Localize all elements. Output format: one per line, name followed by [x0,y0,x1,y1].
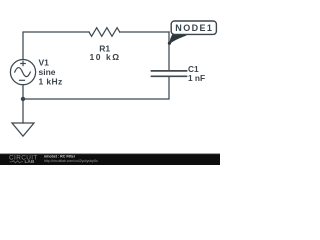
svg-text:mhobst : RC Filter: mhobst : RC Filter [44,155,76,159]
wire: source top to resistor left [23,32,89,60]
node label NODE1 tail [169,34,186,44]
svg-text:1 kHz: 1 kHz [39,77,63,87]
wire: source bottom through junction to ground [22,85,24,123]
resistor R1 [89,28,120,37]
ground symbol [12,123,34,136]
junction node dot [21,97,25,101]
wire: resistor right to corner node [120,31,169,33]
svg-text:sine: sine [39,67,56,77]
voltage source plus sign [21,61,25,65]
capacitor C1 plates [152,71,187,76]
node label NODE1 bubble [171,21,216,34]
svg-text:LAB: LAB [25,159,35,165]
svg-text:http://circuitlab.com/cu42yuky: http://circuitlab.com/cu42yukyukp8o [44,159,98,163]
wire: capacitor bottom to bottom rail and left to junction [23,77,169,99]
voltage source V1 circle [10,60,35,85]
svg-text:10 kΩ: 10 kΩ [90,52,121,62]
voltage source sine glyph [15,68,31,77]
wire: corner down to capacitor top [168,32,170,70]
svg-text:V1: V1 [39,58,50,68]
footer bar [0,154,220,166]
svg-text:NODE1: NODE1 [175,23,213,33]
node label NODE1 tail tip blob [168,42,171,45]
voltage source minus sign [20,79,25,81]
footer logo squiggle [10,161,24,163]
svg-text:1 nF: 1 nF [188,73,205,83]
